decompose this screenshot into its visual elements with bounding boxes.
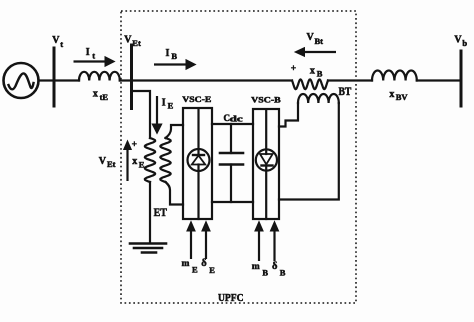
svg-text:B: B	[262, 267, 268, 277]
svg-text:V: V	[99, 156, 107, 167]
svg-text:E: E	[209, 265, 215, 275]
svg-text:V: V	[124, 35, 132, 46]
svg-text:UPFC: UPFC	[218, 292, 244, 304]
svg-text:+: +	[291, 64, 296, 74]
svg-text:ET: ET	[154, 205, 167, 219]
svg-text:δ: δ	[272, 261, 278, 272]
svg-text:VSC-B: VSC-B	[251, 95, 281, 105]
svg-text:E: E	[192, 265, 198, 275]
svg-text:Et: Et	[107, 159, 116, 169]
svg-text:BV: BV	[396, 92, 409, 102]
svg-text:BT: BT	[339, 84, 352, 98]
svg-text:E: E	[168, 101, 174, 111]
svg-text:δ: δ	[201, 258, 207, 269]
svg-text:V: V	[52, 35, 60, 46]
svg-text:t: t	[92, 50, 95, 60]
svg-text:B: B	[317, 69, 323, 79]
svg-text:b: b	[462, 38, 467, 48]
svg-text:tE: tE	[100, 92, 109, 102]
svg-text:x: x	[310, 66, 315, 77]
svg-text:t: t	[60, 39, 63, 49]
svg-text:B: B	[171, 51, 177, 61]
svg-text:I: I	[166, 48, 170, 59]
svg-text:m: m	[252, 262, 260, 272]
svg-text:x: x	[93, 89, 98, 100]
svg-text:m: m	[182, 259, 190, 269]
svg-text:Bt: Bt	[315, 36, 324, 46]
svg-text:Et: Et	[132, 38, 141, 48]
svg-text:I: I	[86, 47, 90, 58]
svg-text:dc: dc	[230, 114, 243, 124]
svg-text:I: I	[162, 98, 166, 109]
svg-text:VSC-E: VSC-E	[182, 94, 211, 104]
svg-text:V: V	[307, 32, 315, 43]
svg-text:+: +	[132, 140, 137, 150]
svg-text:x: x	[132, 156, 137, 167]
svg-text:V: V	[454, 34, 462, 45]
svg-text:B: B	[280, 268, 286, 278]
svg-text:x: x	[389, 89, 394, 100]
svg-text:E: E	[139, 160, 145, 170]
